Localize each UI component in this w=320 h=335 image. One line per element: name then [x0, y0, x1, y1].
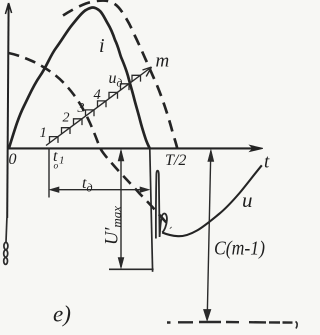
vertical line at end of i (x=150)	[150, 150, 153, 272]
voltage curve u (solid, rising right)	[162, 165, 262, 236]
step square 3	[74, 119, 83, 125]
t1 boundary line	[48, 148, 50, 198]
step square 5	[98, 101, 107, 107]
step square 4	[86, 110, 95, 116]
x-axis	[8, 145, 263, 151]
step square 7	[121, 84, 130, 90]
svg-text:0: 0	[9, 151, 17, 168]
step square 1	[50, 137, 59, 143]
U'max base line	[109, 268, 154, 270]
dashed sine curve B (peak, crosses axis at T/2)	[63, 1, 178, 150]
svg-text:i: i	[99, 35, 105, 57]
step square 6	[109, 92, 118, 98]
bottom dashed reference line	[167, 321, 293, 324]
svg-text:C(m-1): C(m-1)	[214, 238, 265, 260]
C(m-1) double arrow	[204, 150, 214, 321]
current curve i (solid hump)	[9, 8, 150, 150]
t_d double arrow	[50, 187, 150, 193]
svg-text:2: 2	[63, 111, 70, 126]
y-axis	[5, 3, 11, 218]
step square 8	[132, 75, 141, 81]
staircase diagonal line u_d with arrow	[46, 67, 152, 146]
svg-text:о: о	[54, 162, 59, 172]
y-axis lower squiggle end	[4, 218, 8, 264]
svg-text:t: t	[264, 152, 270, 173]
svg-text:m: m	[156, 51, 170, 72]
svg-text:4: 4	[94, 87, 101, 103]
u transient spike and loop	[156, 171, 167, 239]
step square 2	[62, 128, 71, 134]
svg-text:3: 3	[77, 101, 85, 116]
svg-text:u: u	[242, 188, 253, 212]
dashed curve A (from y-axis, descending through axis)	[9, 53, 172, 228]
svg-text:1: 1	[40, 125, 47, 141]
svg-text:е): е)	[53, 302, 71, 327]
U'max double arrow	[118, 150, 124, 269]
comma mark at end of dashed line	[296, 322, 298, 329]
svg-text:T/2: T/2	[165, 152, 186, 169]
